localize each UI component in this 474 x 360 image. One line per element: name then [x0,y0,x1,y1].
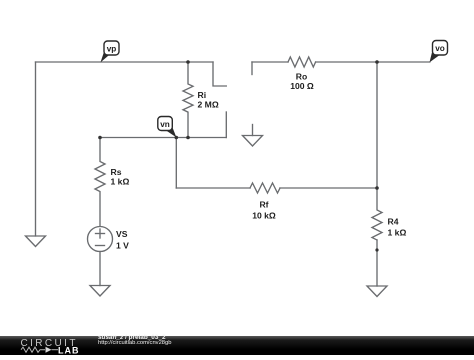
svg-text:Rs: Rs [111,167,122,177]
label Ri [198,90,219,110]
wire right riser vo node down [376,62,378,188]
label VS [116,229,129,251]
node flag vp [101,41,120,62]
ground below VS [90,286,110,297]
wire feedback row right lead [280,187,377,189]
svg-text:vo: vo [435,44,445,53]
wire left riser down to ground [35,62,37,236]
node flag vo [430,41,448,63]
svg-text:2 MΩ: 2 MΩ [198,100,219,110]
junction node vo/Ro [375,60,379,64]
svg-text:Ri: Ri [198,90,207,100]
resistor Rf 10 kOhm (horizontal) [250,183,280,193]
ground middle (below invisible source) [243,136,263,147]
svg-text:Rf: Rf [259,200,268,210]
wire top from left riser to op-amp input step [36,61,214,63]
wire step down to pin1 of invisible source [213,62,226,86]
wire pin3 of invisible source up to output row [251,62,253,75]
ground right (below R4) [367,286,387,297]
wire output row right to vo [316,61,430,63]
resistor Ri 2 MOhm (vertical) [183,62,193,138]
junction node R4 bottom [375,248,378,251]
svg-text:100 Ω: 100 Ω [290,81,314,91]
node flag vn [158,117,177,138]
junction node Rs top corner [98,136,102,140]
wire R4 bottom to ground [376,240,378,286]
resistor Ro 100 Ohm (horizontal) [288,57,316,67]
footer banner [0,336,474,355]
svg-text:VS: VS [116,229,128,239]
wire vn junction down to feedback row [175,138,177,189]
label R4 [388,217,407,238]
svg-text:LAB: LAB [58,345,80,355]
junction node vn flag [175,136,179,140]
svg-text:10 kΩ: 10 kΩ [252,211,276,221]
resistor Rs 1 kOhm (vertical) [95,138,105,227]
label Rf [252,200,276,221]
label Rs [111,167,130,187]
wire pin2 of invisible source down to vn rail [225,112,227,138]
wire pin4 of invisible source down to ground [252,125,254,136]
svg-text:1 kΩ: 1 kΩ [388,228,407,238]
svg-text:vp: vp [107,44,117,53]
junction node Ri bottom [186,136,190,140]
wire feedback row left lead [176,187,250,189]
ground left [26,236,46,247]
banner text [98,336,171,347]
svg-text:1 V: 1 V [116,241,129,251]
wire output row left lead [252,61,288,63]
label Ro [290,72,314,92]
junction node vp/Ri top [186,60,190,64]
svg-text:R4: R4 [388,217,399,227]
svg-text:Ro: Ro [296,72,307,82]
svg-text:1 kΩ: 1 kΩ [111,177,130,187]
resistor R4 1 kOhm (vertical) [372,188,382,240]
logo CIRCUIT LAB [0,336,95,355]
voltage source VS 1V [88,227,113,286]
junction node Rf/R4 [375,186,379,190]
wire vn horizontal rail [100,137,226,139]
svg-text:vn: vn [160,120,170,129]
